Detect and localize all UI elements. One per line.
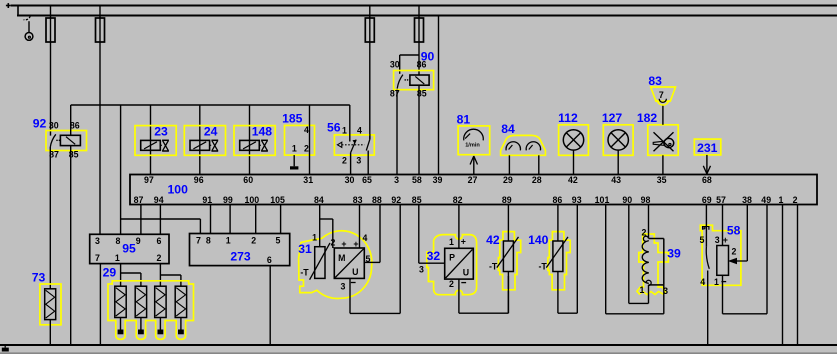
- svg-text:4: 4: [357, 125, 362, 135]
- resistor 73 element: [45, 289, 56, 320]
- wire strip pin 98 to valve 39 pin 2: [648, 205, 650, 239]
- svg-text:31: 31: [303, 175, 313, 185]
- svg-text:8: 8: [116, 236, 121, 246]
- svg-text:58: 58: [727, 223, 741, 237]
- svg-text:1: 1: [449, 237, 454, 247]
- sensor 42 thermistor: [503, 241, 513, 272]
- sender 58 wiper arrow: [733, 260, 747, 262]
- svg-text:2: 2: [793, 195, 798, 205]
- svg-text:1/min: 1/min: [465, 143, 480, 149]
- svg-text:U: U: [463, 267, 469, 277]
- fuse S1: [50, 6, 52, 136]
- gauge unit 84 left gauge: [506, 142, 520, 151]
- tachometer 81 highlight box: [458, 126, 490, 155]
- wire switch 56 pin 4 to fuse S3: [369, 134, 371, 139]
- valve 148 coil: [240, 140, 260, 150]
- battery + terminal: [6, 5, 11, 7]
- lamp 182 highlight box: [648, 125, 678, 156]
- valve 24 coil: [190, 140, 210, 150]
- svg-text:39: 39: [667, 246, 681, 260]
- switch 56 blade: [351, 140, 357, 153]
- wire unit 95 pin 7 to ground rail: [99, 264, 101, 345]
- svg-text:30: 30: [390, 59, 400, 69]
- svg-text:4: 4: [700, 277, 705, 287]
- sender 58 clip mark: [703, 226, 709, 229]
- relay 90 contact blade: [397, 75, 403, 89]
- wire strip pin 84 to sensor 31 pin 1: [319, 205, 321, 247]
- svg-text:88: 88: [372, 195, 382, 205]
- svg-text:6: 6: [157, 236, 162, 246]
- svg-text:140: 140: [528, 233, 549, 247]
- svg-text:43: 43: [611, 175, 621, 185]
- wire gauge 84 to connector pin 29: [508, 155, 510, 174]
- wire bus to valve 23: [150, 105, 152, 175]
- sender 58 highlight box: [700, 225, 741, 285]
- wire lamp 127 to connector: [617, 150, 619, 174]
- relay 92 coil: [60, 135, 80, 145]
- svg-text:69: 69: [702, 195, 712, 205]
- wire strip pin 69 to sender 58 pin 5: [705, 205, 707, 247]
- warning lamp 112 bulb: [563, 130, 583, 150]
- window lower edge strip: [0, 352, 837, 354]
- ground terminal symbol: [4, 345, 6, 348]
- svg-text:90: 90: [622, 195, 632, 205]
- warning lamp 127 bulb: [608, 130, 628, 150]
- designation 231 highlight box: [694, 139, 721, 155]
- wire relay 92 pin 87 to resistor 73: [49, 147, 51, 289]
- svg-text:87: 87: [134, 195, 144, 205]
- wire switch 56 pin 3 to connector pin 65: [367, 151, 369, 175]
- svg-text:148: 148: [252, 125, 273, 139]
- svg-text:5: 5: [700, 235, 705, 245]
- svg-text:97: 97: [144, 175, 154, 185]
- svg-text:58: 58: [412, 175, 422, 185]
- wire strip pin 83 to sensor 31 pin 4: [359, 205, 361, 249]
- svg-text:60: 60: [243, 175, 253, 185]
- wire sender 58 resistor bottom to strip pin 49: [722, 275, 724, 314]
- svg-text:2: 2: [449, 279, 454, 289]
- ignition key switch: [24, 16, 31, 20]
- svg-text:2: 2: [342, 155, 347, 165]
- svg-text:86: 86: [553, 195, 563, 205]
- relay 90 coil: [410, 75, 429, 85]
- fuse S2: [99, 6, 101, 234]
- wire strip pin 88 to sensor 31 pin 5: [379, 205, 381, 263]
- wire lamp 112 to connector: [573, 150, 575, 174]
- wire bus to valve 24: [199, 105, 201, 175]
- svg-text:2: 2: [156, 253, 161, 263]
- svg-text:1: 1: [292, 143, 297, 153]
- sensor 32 highlight outline: [427, 235, 477, 295]
- valve 148 highlight box: [234, 126, 275, 156]
- sensor 42 highlight outline: [498, 232, 520, 290]
- svg-text:2: 2: [731, 247, 736, 257]
- svg-text:2: 2: [251, 236, 256, 246]
- svg-text:56: 56: [327, 121, 341, 135]
- svg-text:82: 82: [453, 195, 463, 205]
- relay 90 feed jog wire: [400, 54, 419, 56]
- valve 39 coil: [643, 236, 648, 241]
- svg-text:39: 39: [433, 175, 443, 185]
- svg-text:7: 7: [95, 253, 100, 263]
- svg-text:4: 4: [363, 233, 368, 243]
- svg-text:23: 23: [154, 125, 168, 139]
- svg-text:95: 95: [122, 242, 136, 256]
- svg-text:42: 42: [486, 233, 500, 247]
- wire connector 83 to lamp 182: [662, 105, 664, 125]
- wire resistor 73 to ground rail: [49, 320, 51, 345]
- svg-text:92: 92: [33, 116, 47, 130]
- svg-text:1: 1: [342, 125, 347, 135]
- svg-text:30: 30: [345, 175, 355, 185]
- wire rail A to rail B drop: [17, 6, 19, 16]
- connector 185 highlight box: [285, 125, 315, 155]
- svg-text:100: 100: [168, 182, 189, 196]
- glow plug control unit 95: [90, 234, 169, 263]
- svg-text:112: 112: [558, 111, 578, 125]
- valve 24 highlight box: [184, 126, 225, 156]
- sensor 31 highlight outline: [299, 231, 372, 299]
- svg-text:93: 93: [572, 195, 582, 205]
- sender 58 minus mark: [721, 281, 726, 283]
- relay 92 highlight box: [46, 131, 87, 151]
- svg-text:+: +: [723, 235, 728, 245]
- ground rail: [0, 344, 837, 346]
- wire sensor 140 bottom: [557, 272, 559, 314]
- svg-text:29: 29: [103, 266, 117, 280]
- glow plug 29 element 1: [115, 286, 126, 317]
- wire bus to valve 148: [249, 105, 251, 175]
- relay 90 highlight box: [394, 71, 434, 90]
- svg-text:9: 9: [136, 236, 141, 246]
- valve 39 body outline: [649, 238, 664, 240]
- svg-text:6: 6: [267, 255, 272, 265]
- wire strip pin 87 to ECU 95 pin 9: [140, 205, 142, 235]
- wire valve 39 pin 1 to strip pin 90: [648, 285, 650, 304]
- wire switch 56 pin 2 to connector pin 30: [350, 153, 352, 175]
- svg-text:8: 8: [206, 236, 211, 246]
- svg-text:3: 3: [715, 235, 720, 245]
- connector 185 ground: [293, 155, 295, 166]
- svg-text:83: 83: [353, 195, 363, 205]
- svg-text:89: 89: [502, 195, 512, 205]
- wire bus node joining pins 8 9 6 and 273 pin 7: [121, 218, 201, 220]
- svg-text:99: 99: [223, 195, 233, 205]
- svg-text:3: 3: [394, 175, 399, 185]
- sensor 140 thermistor: [553, 241, 563, 272]
- svg-text:-T: -T: [538, 262, 547, 272]
- svg-text:87: 87: [390, 89, 400, 99]
- svg-text:+: +: [461, 237, 466, 247]
- svg-text:105: 105: [270, 195, 285, 205]
- svg-text:27: 27: [468, 175, 478, 185]
- wire sensor 31 pin 2 jog: [320, 218, 333, 220]
- svg-text:3: 3: [95, 236, 100, 246]
- wire bus drop to unit 273 pin 7: [199, 219, 201, 234]
- svg-text:94: 94: [154, 195, 164, 205]
- wire bus through connector 185 to pin 31: [309, 105, 311, 175]
- wire strip pin 1 to ground rail: [782, 205, 784, 346]
- control unit connector strip 100: [130, 175, 817, 205]
- svg-text:U: U: [352, 267, 358, 277]
- sensor 31 M/U converter box: [334, 248, 364, 278]
- wire strip pin 38 to sender 58 wiper: [746, 205, 748, 262]
- svg-text:7: 7: [196, 236, 201, 246]
- connector 83 socket hook: [659, 99, 666, 103]
- svg-text:-T: -T: [489, 262, 498, 272]
- svg-text:32: 32: [427, 249, 441, 263]
- svg-text:5: 5: [275, 236, 280, 246]
- wire unit 95 pin 2 to glow plugs 3 and 4: [159, 264, 161, 287]
- valve 23 highlight box: [135, 126, 176, 156]
- sensor 32 minus mark: [461, 282, 466, 284]
- switch 56 contact arrow: [353, 140, 356, 144]
- svg-text:73: 73: [32, 270, 46, 284]
- wire gauge 84 to connector pin 28: [538, 155, 540, 174]
- fuse S3: [369, 6, 371, 139]
- wire sensor 31 pin 3 to strip pin 92: [349, 278, 351, 313]
- svg-text:38: 38: [742, 195, 752, 205]
- warning lamp 127 highlight box: [603, 125, 633, 156]
- svg-text:86: 86: [417, 59, 427, 69]
- wire strip pin 91 to unit 273 pin 8: [210, 205, 212, 234]
- wire strip pin 100 to unit 273 pin 2: [255, 205, 257, 234]
- svg-text:2: 2: [304, 143, 309, 153]
- svg-text:3: 3: [419, 265, 424, 275]
- valve 24 valve symbol: [210, 144, 212, 146]
- glow plug 29 element 4: [175, 286, 186, 317]
- svg-text:1: 1: [312, 232, 317, 242]
- svg-text:3: 3: [356, 155, 361, 165]
- switch 56 highlight box: [334, 135, 374, 155]
- wire rail B to connector pin 39: [438, 16, 440, 175]
- wire bus to switch 56 pin 1: [349, 105, 351, 142]
- svg-text:182: 182: [637, 111, 658, 125]
- wire bus from relay 92 pin 86: [71, 104, 350, 106]
- svg-text:M: M: [338, 253, 345, 263]
- glow plug 29 element 3: [155, 286, 166, 317]
- svg-text:92: 92: [391, 195, 401, 205]
- wire relay 90 pin 87 to connector pin 3: [396, 90, 398, 175]
- svg-text:30: 30: [49, 120, 59, 130]
- sensor 32 P/U box: [445, 248, 474, 279]
- wire strip pin 105 to unit 273 pin 5: [280, 205, 282, 234]
- wire relay 92 pin 86 to bus: [70, 105, 72, 135]
- svg-text:98: 98: [641, 195, 651, 205]
- wire lamp 182 to connector pin 35: [662, 155, 664, 174]
- switch 56 linkage dotted: [342, 144, 365, 146]
- wire sensor 42 top: [507, 205, 509, 242]
- svg-text:1: 1: [640, 285, 645, 295]
- svg-text:3: 3: [340, 281, 345, 291]
- wire 30 rail (top): [11, 5, 837, 7]
- wire sensor 140 top: [557, 205, 559, 242]
- sensor 31 thermistor: [315, 247, 325, 279]
- wire relay 90 pin 85 to connector pin 58: [418, 85, 420, 174]
- wire unit 95 pin 1 to glow plugs 1 and 2: [120, 264, 122, 287]
- svg-text:24: 24: [204, 125, 218, 139]
- warning lamp 112 highlight box: [559, 125, 589, 156]
- svg-text:83: 83: [648, 74, 662, 88]
- valve 23 coil: [141, 140, 161, 150]
- svg-text:1: 1: [115, 253, 120, 263]
- wire sensor 32 pin 2 to sensor 42 ground bus: [458, 279, 460, 313]
- wire strip pin 57 to sender 58 resistor top: [722, 205, 724, 246]
- gauge unit 84 right gauge: [526, 142, 540, 151]
- svg-text:29: 29: [503, 175, 513, 185]
- svg-text:1: 1: [779, 195, 784, 205]
- svg-text:-T: -T: [300, 268, 309, 278]
- svg-text:49: 49: [761, 195, 771, 205]
- wire sensor 140 ground bus to strip pin 93: [558, 312, 577, 314]
- svg-text:4: 4: [304, 125, 309, 135]
- svg-text:42: 42: [568, 175, 578, 185]
- wire sender 58 pin 4 to ground rail: [707, 271, 709, 346]
- sensor 140 highlight outline: [548, 232, 570, 290]
- glow plug 29 element 2: [135, 286, 146, 317]
- wire sensor 42 bottom: [507, 272, 509, 314]
- control unit 273: [190, 234, 290, 266]
- svg-text:1: 1: [714, 277, 719, 287]
- wire strip pin 99 to unit 273 pin 1: [229, 205, 231, 234]
- sensor 31 minus mark: [351, 282, 356, 284]
- svg-text:P: P: [449, 253, 455, 263]
- switch 56 fixed contact from pin 4: [366, 139, 370, 150]
- wire strip pin 85 to sensor 32 pin 3: [418, 205, 420, 264]
- svg-text:84: 84: [501, 122, 515, 136]
- wire strip pin 94 to ECU 95 pin 6: [159, 205, 161, 235]
- resistor 73 highlight box: [40, 284, 61, 325]
- wire unit 273 pin 6 to ground rail: [269, 266, 271, 345]
- svg-text:185: 185: [282, 111, 303, 125]
- svg-text:84: 84: [314, 195, 324, 205]
- svg-text:7: 7: [659, 90, 664, 100]
- svg-text:81: 81: [457, 113, 471, 127]
- svg-text:1: 1: [226, 236, 231, 246]
- svg-text:127: 127: [602, 111, 623, 125]
- svg-text:57: 57: [716, 195, 726, 205]
- glow plugs 29 highlight outline: [108, 281, 194, 340]
- sender 58 switch blade: [706, 247, 709, 269]
- svg-text:68: 68: [702, 175, 712, 185]
- valve 39 highlight outline: [637, 234, 668, 295]
- svg-text:65: 65: [362, 175, 372, 185]
- svg-text:273: 273: [230, 249, 251, 263]
- wire strip pin 82 to sensor 32 pin 1: [458, 205, 460, 249]
- svg-text:100: 100: [244, 195, 259, 205]
- svg-text:96: 96: [194, 175, 204, 185]
- wire strip pin 2 to ground rail: [797, 205, 799, 346]
- gauge unit 84 highlight outline: [501, 135, 546, 155]
- wire arrow 231 to connector pin 68: [706, 155, 708, 174]
- svg-text:101: 101: [595, 195, 610, 205]
- wire 15 rail (second): [17, 15, 837, 17]
- svg-text:231: 231: [697, 141, 718, 155]
- wire signal arrow to tachometer 81 pin 27: [473, 156, 475, 175]
- relay 92 contact blade: [50, 134, 56, 147]
- valve 23 valve symbol: [160, 144, 162, 146]
- svg-text:31: 31: [298, 242, 312, 256]
- svg-text:35: 35: [657, 175, 667, 185]
- svg-text:28: 28: [532, 175, 542, 185]
- lamp 182 key-cross symbol: [654, 132, 674, 151]
- wire valve 39 pin 3 to strip pin 101: [663, 285, 665, 314]
- fuse S4: [418, 6, 420, 75]
- sender 58 resistor: [717, 246, 729, 276]
- tachometer 81 gauge: [464, 129, 484, 140]
- svg-text:91: 91: [202, 195, 212, 205]
- wire bus to ECU 95 pin 8: [120, 105, 122, 234]
- connector 83 highlight trapezoid: [651, 87, 676, 101]
- svg-text:85: 85: [412, 195, 422, 205]
- wire relay 92 pin 85 to ground rail: [70, 146, 72, 345]
- valve 148 valve symbol: [259, 144, 261, 146]
